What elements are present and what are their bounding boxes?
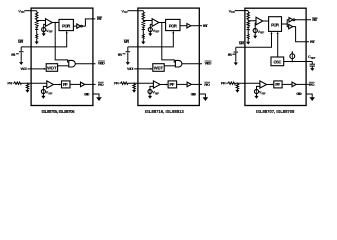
wire POR to RST driver 2 (right) xyxy=(287,24,289,27)
IC body box (right) xyxy=(245,8,306,105)
wire AND gate to WDO pin (mid) xyxy=(182,63,202,65)
arrowhead OSC into POR bottom (right) xyxy=(277,32,279,34)
svg-text:SRT: SRT xyxy=(311,56,316,60)
ground divider (left) xyxy=(35,40,39,44)
svg-text:PF: PF xyxy=(169,82,174,87)
wire MR to POR (left) xyxy=(21,33,67,47)
PF comparator (mid) xyxy=(153,81,160,88)
arrowhead into PF block (left) xyxy=(59,83,61,85)
wire PF comparator to PF block (right) xyxy=(267,84,272,86)
push button lower contact (left) xyxy=(20,52,22,60)
resistor divider bottom (left) xyxy=(36,21,38,26)
svg-text:GND: GND xyxy=(191,92,197,97)
OSC block (right) xyxy=(271,57,284,66)
svg-text:POR: POR xyxy=(62,23,71,28)
wire PFI (left) xyxy=(13,82,14,84)
push button stem (mid) xyxy=(127,47,129,51)
arrowhead WDI (mid) xyxy=(150,68,152,70)
wire GND pin out (mid) xyxy=(199,94,205,97)
buffer RST-bar driver (right) xyxy=(289,18,293,22)
svg-text:POR: POR xyxy=(271,22,280,27)
ground VREF (mid) xyxy=(148,95,152,99)
ground PB (mid) xyxy=(126,61,130,65)
wire GND pin out (left) xyxy=(93,94,99,97)
svg-text:REF: REF xyxy=(260,31,265,35)
ground VREF (left) xyxy=(41,95,45,99)
push button stem (right) xyxy=(235,47,237,51)
wire MR to POR (mid) xyxy=(128,33,174,47)
wire POR to RST buffer (mid) xyxy=(180,25,187,27)
svg-text:WDI: WDI xyxy=(20,66,26,71)
wire PF comparator to PF block (left) xyxy=(53,83,59,85)
wire into PF comparator (right) xyxy=(235,82,259,84)
diode bandgap (left) xyxy=(35,27,38,30)
wire to ground (left) xyxy=(36,39,38,41)
comparator (right) xyxy=(256,17,263,25)
svg-text:RST: RST xyxy=(310,39,316,44)
resistor trim (left) xyxy=(36,34,38,39)
wire comparator output to POR (right) xyxy=(263,20,269,22)
bubble on buffer output (left) xyxy=(81,25,83,27)
push button bar (left) xyxy=(19,51,24,53)
wire VDD rail down (mid) xyxy=(142,11,144,13)
wire VDD (right) xyxy=(235,10,249,12)
svg-text:ISL88716, ISL88813: ISL88716, ISL88813 xyxy=(145,109,185,114)
wire capacitor to ground (right) xyxy=(311,65,313,68)
svg-text:REF: REF xyxy=(48,91,53,95)
voltage reference VREF (right) xyxy=(254,89,258,93)
ground GND pin (mid) xyxy=(203,97,209,101)
wire VREF to ground (left) xyxy=(42,93,44,95)
wire VDD (left) xyxy=(24,10,36,12)
wire buffer to PFO pin (mid) xyxy=(191,83,202,85)
wire VREF to ground (mid) xyxy=(149,31,151,33)
wire SRT to capacitor (right) xyxy=(311,62,313,65)
AND gate (left) xyxy=(69,60,75,67)
wire junction down to AND gate top input (mid) xyxy=(162,22,176,62)
svg-text:REF: REF xyxy=(155,91,160,95)
wire POR output branch (right) xyxy=(282,20,290,24)
buffer PFO driver (left) xyxy=(80,82,84,87)
buffer push-pull RST driver (mid) xyxy=(187,24,191,28)
svg-text:PB: PB xyxy=(11,52,15,57)
svg-text:GND: GND xyxy=(84,92,90,97)
wire junction down to AND gate top input (left) xyxy=(55,22,69,62)
buffer PFO driver (right) xyxy=(292,82,296,87)
wire buffer to RST pin (left) xyxy=(82,19,95,26)
ground VREF (left) xyxy=(42,32,46,36)
wire buffer to RST pin active high (right) xyxy=(293,27,309,42)
wire into PF comparator (mid) xyxy=(128,82,153,84)
ground GND pin (left) xyxy=(96,97,102,101)
ground CSRT (right) xyxy=(310,67,314,71)
POR block (left) xyxy=(59,19,73,30)
PF block (mid) xyxy=(168,81,177,88)
buffer RST driver (right) xyxy=(289,24,293,28)
wire buffer to PFO pin (right) xyxy=(296,83,309,85)
current source (right) xyxy=(290,54,295,59)
wire POR to RST buffer (left) xyxy=(73,25,76,27)
wire VDD rail down (left) xyxy=(36,11,38,13)
push button stem (left) xyxy=(20,47,22,51)
resistor external series (right) xyxy=(228,82,235,84)
svg-text:PFI: PFI xyxy=(221,81,226,86)
IC body box (left) xyxy=(31,8,93,105)
wire comparator minus input to VREF (left) xyxy=(44,24,46,27)
wire diode down (left) xyxy=(36,29,38,34)
ground PB (left) xyxy=(19,61,23,65)
wire MR to POR (right) xyxy=(236,34,272,47)
wire node to current source (right) xyxy=(291,52,293,54)
arrowhead into PF block (mid) xyxy=(166,83,168,85)
resistor divider bottom (mid) xyxy=(142,21,144,26)
svg-text:ISL88707, ISL88708: ISL88707, ISL88708 xyxy=(256,109,295,114)
PF block (right) xyxy=(274,81,282,88)
push button lower contact (mid) xyxy=(127,52,129,60)
wire PF comparator to PF block (mid) xyxy=(160,83,166,85)
wire VREF to ground (mid) xyxy=(149,93,151,95)
ground PFI divider (mid) xyxy=(132,89,136,93)
node POR output branch (right) xyxy=(286,23,288,25)
wire comparator minus input to VREF (left) xyxy=(43,86,46,89)
SRT line OSC to pin (right) xyxy=(284,61,313,63)
wire PFI (mid) xyxy=(119,82,120,84)
resistor divider top (mid) xyxy=(142,12,144,19)
svg-text:PFO: PFO xyxy=(309,82,315,87)
svg-text:PFO: PFO xyxy=(204,82,210,87)
svg-text:DD: DD xyxy=(21,10,25,14)
wire comparator output to POR (left) xyxy=(52,21,59,23)
node PFI divider junction (right) xyxy=(237,83,238,84)
wire into PF comparator (left) xyxy=(21,82,46,84)
voltage reference VREF (left) xyxy=(42,27,46,31)
svg-text:RST: RST xyxy=(203,23,209,28)
svg-text:PB: PB xyxy=(228,52,232,57)
wire divider tap to comparator (mid) xyxy=(143,19,152,20)
arrowhead into PF block (right) xyxy=(272,84,274,86)
ground PFI divider (left) xyxy=(25,89,29,93)
wire WDT to AND gate (left) xyxy=(58,65,69,67)
voltage reference VREF (left) xyxy=(41,89,45,93)
svg-text:DD: DD xyxy=(231,10,235,14)
svg-text:POR: POR xyxy=(169,23,178,28)
WDT block (left) xyxy=(46,64,57,72)
ground PFI divider (right) xyxy=(235,89,239,93)
wire VREF to ground (right) xyxy=(254,32,256,35)
svg-text:WDT: WDT xyxy=(47,66,57,71)
resistor external series (left) xyxy=(14,82,21,84)
wire buffer to PFO pin (left) xyxy=(85,83,96,85)
ground VREF (right) xyxy=(254,95,258,99)
node PFI divider junction (mid) xyxy=(133,82,134,83)
resistor divider bottom (right) xyxy=(247,21,249,26)
svg-text:PFI: PFI xyxy=(7,81,12,86)
svg-text:ISL88705, ISL88706: ISL88705, ISL88706 xyxy=(41,109,75,114)
wire divider tap to comparator (left) xyxy=(37,19,46,20)
ground VREF (right) xyxy=(253,35,257,39)
push button lower contact (right) xyxy=(235,53,237,61)
svg-text:DD: DD xyxy=(124,10,128,14)
arrowhead MR into POR bottom (right) xyxy=(271,32,273,34)
wire divider tap to comparator (right) xyxy=(248,19,256,20)
wire buffer to RST-bar pin (right) xyxy=(295,19,311,21)
wire PF block to output buffer (right) xyxy=(282,83,292,85)
WDT block (mid) xyxy=(153,64,164,72)
node SRT junction (right) xyxy=(292,61,294,63)
wire VREF to ground (left) xyxy=(43,31,45,33)
wire comparator minus input to VREF (mid) xyxy=(150,86,153,89)
arrowhead MR into POR bottom (mid) xyxy=(172,31,174,33)
wire OSC to POR bottom (right) xyxy=(277,34,279,57)
ground divider (mid) xyxy=(141,40,145,44)
wire WDI to WDT (left) xyxy=(28,68,44,70)
capacitor CSRT plates (right) xyxy=(310,63,315,65)
arrowhead MR into POR bottom (left) xyxy=(66,31,68,33)
PF comparator (left) xyxy=(47,81,54,88)
resistor external series (mid) xyxy=(121,82,128,84)
voltage reference VREF (right) xyxy=(253,28,257,32)
push button bar (right) xyxy=(234,51,239,53)
svg-text:WDI: WDI xyxy=(127,66,133,71)
wire PF block to output buffer (mid) xyxy=(177,83,188,85)
resistor trim (right) xyxy=(247,34,249,39)
wire VDD (mid) xyxy=(128,10,144,12)
wire diode down (right) xyxy=(247,30,249,35)
wire VREF to ground (right) xyxy=(255,93,257,95)
node current source top (right) xyxy=(292,51,294,53)
resistor external pulldown (left) xyxy=(26,84,28,89)
PF block (left) xyxy=(61,81,70,88)
wire comparator minus input to VREF (mid) xyxy=(150,24,152,27)
svg-text:PB: PB xyxy=(118,52,122,57)
wire buffer to RST pin (mid) xyxy=(191,25,202,27)
IC body box (mid) xyxy=(138,8,199,105)
push button bar (mid) xyxy=(126,51,131,53)
wire to ground (right) xyxy=(247,39,249,41)
wire current source to SRT line (right) xyxy=(291,59,293,62)
diode bandgap (mid) xyxy=(142,27,145,30)
svg-text:PFO: PFO xyxy=(98,82,104,87)
svg-text:PF: PF xyxy=(63,82,68,87)
svg-text:REF: REF xyxy=(49,30,54,34)
ground VREF (mid) xyxy=(148,32,152,36)
diode bandgap (right) xyxy=(247,27,250,30)
ground divider (right) xyxy=(246,41,250,45)
node comparator output junction (left) xyxy=(54,22,56,24)
POR block (right) xyxy=(269,17,282,32)
PF comparator (right) xyxy=(260,81,267,88)
resistor divider top (left) xyxy=(36,12,38,19)
buffer open-drain RST driver (left) xyxy=(77,24,81,28)
comparator (left) xyxy=(46,19,53,27)
svg-text:PFI: PFI xyxy=(114,81,119,86)
ground PB (right) xyxy=(234,61,238,65)
node PFI divider junction (left) xyxy=(27,82,28,83)
ground GND pin (right) xyxy=(309,97,315,101)
POR block (mid) xyxy=(166,19,180,30)
comparator (mid) xyxy=(152,19,159,27)
voltage reference VREF (mid) xyxy=(148,27,152,31)
resistor divider top (right) xyxy=(247,12,249,19)
wire VDD rail down (right) xyxy=(247,11,249,13)
wire PFI (right) xyxy=(226,82,228,84)
svg-text:PF: PF xyxy=(275,82,280,87)
wire PF block to output buffer (left) xyxy=(70,83,81,85)
AND gate (mid) xyxy=(175,60,181,67)
resistor trim (mid) xyxy=(142,34,144,39)
node comparator output junction (mid) xyxy=(161,22,163,24)
wire WDI to WDT (mid) xyxy=(134,68,150,70)
wire WDT to AND gate (mid) xyxy=(164,65,175,67)
arrowhead WDI (left) xyxy=(44,68,46,70)
resistor external pulldown (right) xyxy=(236,84,238,89)
resistor external pulldown (mid) xyxy=(133,84,135,89)
svg-text:GND: GND xyxy=(296,91,302,96)
bubble on RST-bar buffer (right) xyxy=(293,19,295,21)
wire AND gate to WDO pin (left) xyxy=(75,63,95,65)
wire GND pin out (right) xyxy=(306,94,312,97)
wire comparator minus input to VREF (right) xyxy=(254,23,257,29)
wire comparator minus input to VREF (right) xyxy=(256,86,259,89)
wire diode down (mid) xyxy=(142,29,144,34)
svg-text:OSC: OSC xyxy=(274,59,282,64)
wire to ground (mid) xyxy=(142,39,144,41)
svg-text:REF: REF xyxy=(155,30,160,34)
voltage reference VREF (mid) xyxy=(148,89,152,93)
svg-text:REF: REF xyxy=(261,91,266,95)
buffer PFO driver (mid) xyxy=(187,82,191,87)
svg-text:WDT: WDT xyxy=(154,66,164,71)
wire comparator output to POR (mid) xyxy=(159,21,166,23)
